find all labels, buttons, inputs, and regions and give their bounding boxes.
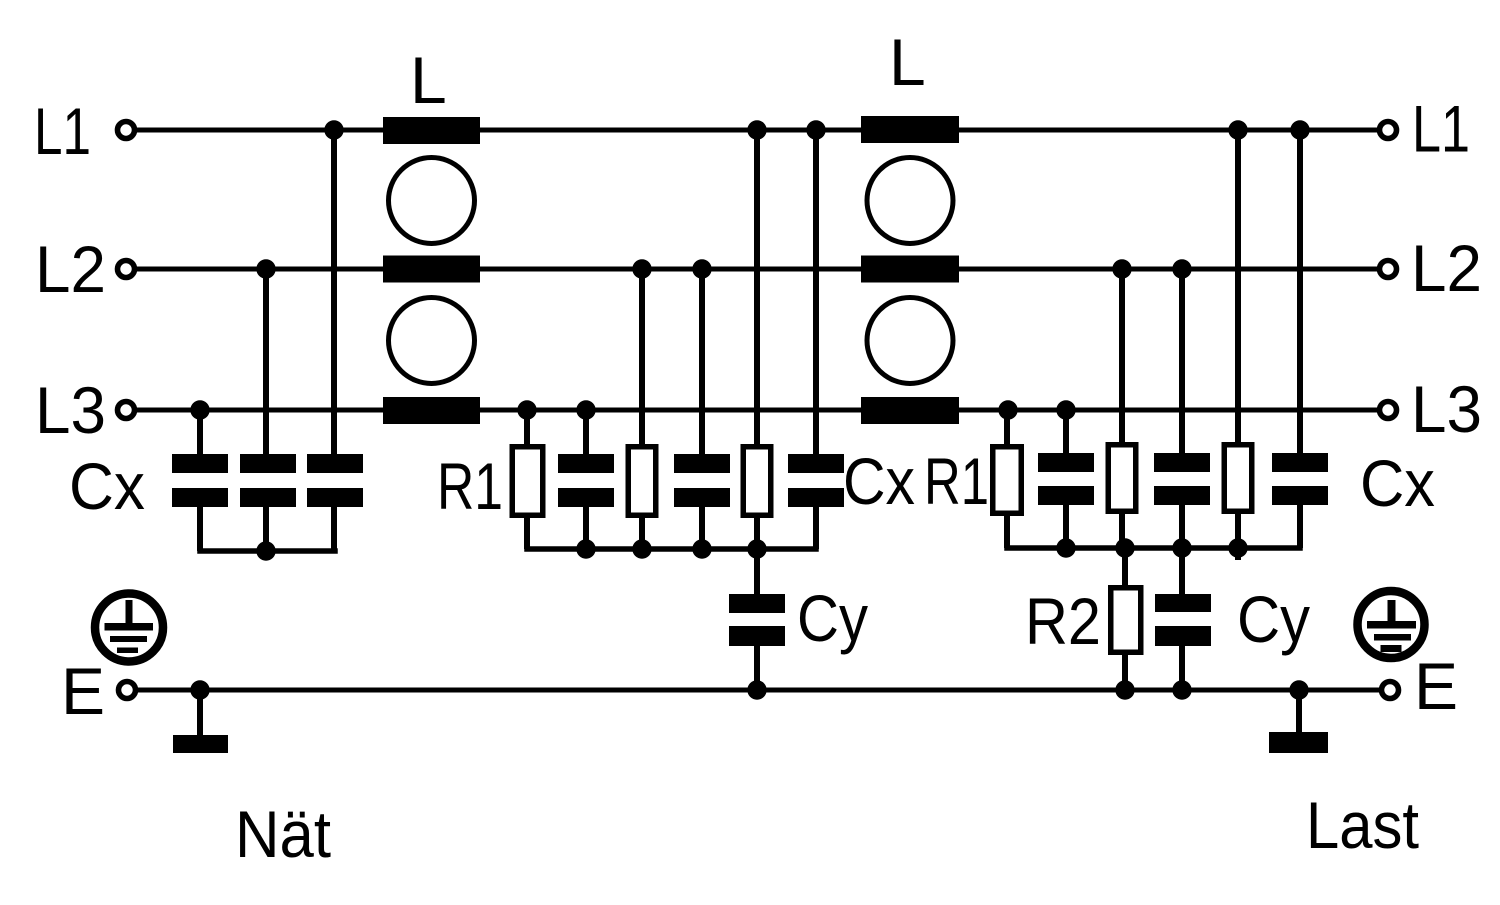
- junction E x1182: [1172, 680, 1191, 699]
- wire mid resistor C bottom lead: [754, 514, 760, 549]
- wire L3 drop to left Cx: [197, 410, 203, 456]
- wire right resistor B bottom lead: [1119, 512, 1125, 548]
- svg-text:L: L: [410, 43, 447, 117]
- wire R1 top lead: [524, 410, 530, 447]
- junction L3 x200: [190, 400, 209, 419]
- ground PE symbol right ring: [1358, 591, 1425, 658]
- junction L1 x1300: [1290, 120, 1309, 139]
- ground PE symbol left bar2: [110, 636, 147, 642]
- junction L2 x1182: [1172, 259, 1191, 278]
- junction right bus b: [1115, 538, 1134, 557]
- capacitor Cx left phase L2: [240, 454, 296, 473]
- junction mid bus a: [576, 539, 595, 558]
- resistor right phase L1: [1224, 445, 1252, 512]
- wire L1 line: [126, 128, 1388, 133]
- terminal L2 left: [118, 261, 135, 278]
- wire right cap A top lead: [1063, 410, 1069, 456]
- junction mid bus c: [692, 539, 711, 558]
- junction L3 x1066: [1056, 400, 1075, 419]
- wire right chassis stem: [1296, 690, 1302, 734]
- junction L2 x266: [256, 259, 275, 278]
- ground chassis bar left: [173, 735, 228, 753]
- wire right cap A bottom lead: [1063, 502, 1069, 548]
- wire L3 line: [126, 408, 1388, 413]
- junction right bus c: [1172, 538, 1191, 557]
- svg-text:Cy: Cy: [1237, 582, 1310, 656]
- wire L2 line: [126, 267, 1388, 272]
- junction right bus d: [1228, 538, 1247, 557]
- wire right resistor C bottom lead: [1235, 512, 1241, 548]
- ground PE symbol left bar3: [117, 648, 138, 654]
- wire right star bus: [1007, 545, 1300, 551]
- inductor L stage1 winding L1: [383, 117, 480, 144]
- terminal E right: [1382, 682, 1399, 699]
- capacitor Cx right phase L1: [1272, 453, 1328, 472]
- junction E x200: [190, 680, 209, 699]
- svg-text:L1: L1: [1412, 92, 1470, 166]
- wire mid cap B bottom lead: [699, 503, 705, 549]
- wire left Cx star bus: [200, 548, 335, 554]
- wire Cy right top lead: [1179, 548, 1185, 596]
- junction L3 x527: [517, 400, 536, 419]
- wire mid resistor C top lead: [754, 130, 760, 447]
- svg-text:R2: R2: [1025, 584, 1101, 658]
- capacitor Cy right: [1155, 594, 1211, 612]
- wire mid cap C top lead: [813, 130, 819, 458]
- inductor L stage2 winding L3: [861, 397, 959, 424]
- resistor R2: [1111, 588, 1141, 653]
- wire mid cap C bottom lead: [813, 503, 819, 549]
- terminal L1 right: [1380, 122, 1397, 139]
- capacitor Cx middle phase L2: [674, 454, 730, 473]
- ground PE symbol right bar2: [1374, 634, 1411, 641]
- capacitor Cx left phase L1: [307, 454, 363, 473]
- resistor R1 middle: [512, 447, 543, 516]
- svg-text:L1: L1: [34, 94, 91, 168]
- svg-text:Cx: Cx: [843, 444, 915, 518]
- choke core circle stage2 upper: [867, 158, 953, 244]
- inductor L stage1 winding L2: [383, 256, 480, 283]
- junction L3 x1008: [998, 400, 1017, 419]
- junction L1 x757: [747, 120, 766, 139]
- wire right resistor C top lead: [1235, 130, 1241, 445]
- wire R2 top lead: [1122, 548, 1128, 588]
- junction L2 x642: [632, 259, 651, 278]
- wire mid cap A top lead: [583, 410, 589, 458]
- junction L2 x702: [692, 259, 711, 278]
- svg-text:E: E: [61, 654, 105, 728]
- svg-text:L3: L3: [1411, 372, 1482, 446]
- junction right bus a: [1056, 538, 1075, 557]
- wire right resistor B top lead: [1119, 269, 1125, 445]
- junction L2 x1122: [1112, 259, 1131, 278]
- wire right R1 top lead: [1004, 410, 1010, 447]
- ground PE symbol right bar3: [1381, 645, 1402, 652]
- junction E x1125: [1115, 680, 1134, 699]
- ground PE symbol right stem: [1388, 600, 1396, 624]
- wire mid resistor B bottom lead: [639, 514, 645, 549]
- svg-text:Nät: Nät: [235, 797, 331, 871]
- wire E line: [127, 688, 1390, 693]
- wire Cy middle bottom lead: [754, 644, 760, 690]
- wire R1 bottom lead: [524, 514, 530, 549]
- junction mid bus d: [747, 539, 766, 558]
- wire mid cap A bottom lead: [583, 503, 589, 549]
- svg-text:Last: Last: [1306, 788, 1419, 862]
- junction L1 x1238: [1228, 120, 1247, 139]
- ground PE symbol left stem: [126, 600, 133, 626]
- ground PE symbol left ring: [95, 594, 163, 662]
- capacitor Cx middle phase L1: [788, 454, 844, 473]
- choke core circle stage1 upper: [389, 158, 475, 244]
- svg-text:L2: L2: [1411, 231, 1482, 305]
- junction L3 x586: [576, 400, 595, 419]
- wire right cap B bottom lead: [1179, 502, 1185, 548]
- junction L1 x334: [324, 120, 343, 139]
- terminal L1 left: [118, 122, 135, 139]
- capacitor Cx right phase L3: [1038, 453, 1094, 472]
- wire right R1 bottom lead: [1004, 512, 1010, 548]
- ground chassis bar right: [1269, 732, 1328, 753]
- ground PE symbol left bar1: [105, 623, 154, 631]
- capacitor Cx left phase L3: [172, 454, 228, 473]
- inductor L stage2 winding L1: [861, 116, 959, 143]
- svg-text:Cy: Cy: [797, 581, 868, 655]
- resistor R1 right: [993, 447, 1022, 514]
- svg-text:L2: L2: [35, 232, 106, 306]
- wire L1 drop to left Cx: [331, 130, 337, 456]
- inductor L stage2 winding L2: [861, 256, 959, 283]
- wire middle star bus: [527, 546, 816, 552]
- wire left Cx bottom lead 1: [197, 503, 203, 551]
- svg-text:E: E: [1414, 649, 1458, 723]
- terminal E left: [119, 682, 136, 699]
- junction E x1299: [1289, 680, 1308, 699]
- ground PE symbol right bar1: [1367, 621, 1416, 629]
- choke core circle stage2 lower: [867, 298, 953, 384]
- junction E x757: [747, 680, 766, 699]
- wire Cy middle top lead: [754, 549, 760, 596]
- wire left Cx bottom lead 3: [331, 503, 337, 551]
- wire mid cap B top lead: [699, 269, 705, 458]
- svg-text:Cx: Cx: [69, 449, 145, 523]
- wire left chassis stem: [197, 690, 203, 737]
- wire right cap C top lead: [1297, 130, 1303, 456]
- wire stub below right bus: [1235, 548, 1241, 560]
- svg-text:R1: R1: [924, 444, 989, 518]
- wire L2 drop to left Cx: [263, 269, 269, 456]
- junction left Cx bus: [256, 541, 275, 560]
- junction L1 x816: [806, 120, 825, 139]
- resistor middle phase L1: [743, 447, 771, 516]
- svg-text:Cx: Cx: [1360, 446, 1435, 520]
- terminal L3 left: [118, 402, 135, 419]
- wire left Cx bottom lead 2: [263, 503, 269, 551]
- capacitor Cx right phase L2: [1154, 453, 1210, 472]
- inductor L stage1 winding L3: [383, 397, 480, 424]
- wire right cap C bottom lead: [1297, 502, 1303, 548]
- terminal L3 right: [1380, 402, 1397, 419]
- wire Cy right bottom lead: [1179, 644, 1185, 690]
- choke core circle stage1 lower: [389, 298, 475, 384]
- wire right cap B top lead: [1179, 269, 1185, 456]
- wire R2 bottom lead: [1122, 652, 1128, 690]
- capacitor Cx middle phase L3: [558, 454, 614, 473]
- resistor middle phase L2: [628, 447, 656, 516]
- svg-text:L3: L3: [35, 373, 106, 447]
- svg-text:L: L: [889, 25, 926, 99]
- wire mid resistor B top lead: [639, 269, 645, 447]
- resistor right phase L2: [1108, 445, 1136, 512]
- junction mid bus b: [632, 539, 651, 558]
- capacitor Cy middle: [729, 594, 785, 613]
- svg-text:R1: R1: [437, 449, 503, 523]
- terminal L2 right: [1380, 261, 1397, 278]
